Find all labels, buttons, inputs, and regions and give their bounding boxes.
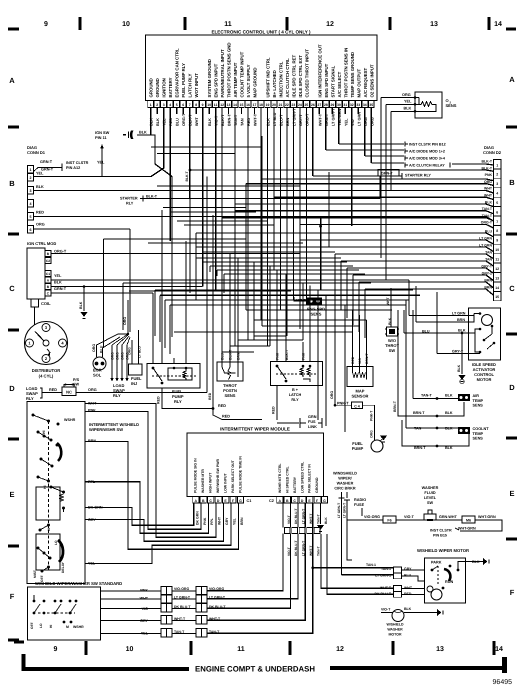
svg-text:WASHER: WASHER	[387, 628, 403, 632]
svg-text:27: 27	[317, 103, 321, 107]
svg-text:O2 SENS INPUT: O2 SENS INPUT	[369, 64, 374, 97]
wire air temp row	[413, 398, 458, 400]
inline connector row below module	[284, 528, 320, 534]
svg-text:FUEL PUMP RLY: FUEL PUMP RLY	[181, 63, 186, 98]
wire o2 org	[381, 97, 419, 99]
svg-text:MOTOR: MOTOR	[477, 377, 492, 382]
wire BLK row ign	[51, 286, 203, 288]
svg-text:PNK-T: PNK-T	[370, 410, 374, 421]
wire GRN-T row ign	[51, 292, 153, 294]
svg-text:TAN-1: TAN-1	[366, 563, 376, 567]
svg-text:ORG: ORG	[121, 352, 125, 360]
svg-text:BLK-T: BLK-T	[229, 349, 233, 360]
svg-text:B +: B +	[292, 388, 299, 392]
svg-text:3: 3	[496, 182, 498, 186]
svg-text:BLK: BLK	[445, 411, 453, 415]
svg-text:CIRC BRKR: CIRC BRKR	[334, 487, 356, 491]
wiper module left pin labels	[194, 456, 243, 493]
svg-text:ENG SPD INPUT: ENG SPD INPUT	[214, 63, 219, 97]
svg-text:BATTERY: BATTERY	[293, 476, 297, 493]
svg-text:RED: RED	[272, 406, 276, 414]
svg-text:13: 13	[227, 103, 231, 107]
svg-text:BLK: BLK	[445, 446, 453, 450]
wire motor rows	[402, 569, 425, 571]
svg-text:PARK: PARK	[431, 561, 442, 565]
svg-text:VIO: VIO	[142, 607, 148, 611]
svg-text:HI SPEED CTRL: HI SPEED CTRL	[285, 465, 289, 493]
svg-text:ORG: ORG	[36, 223, 45, 227]
svg-text:C2: C2	[46, 259, 50, 263]
svg-text:GROUND: GROUND	[149, 78, 154, 97]
svg-text:RUN: RUN	[445, 580, 453, 584]
svg-text:RLY: RLY	[113, 393, 121, 398]
svg-text:ORG: ORG	[88, 388, 97, 392]
svg-text:ORG-T: ORG-T	[182, 113, 186, 126]
svg-text:BLK: BLK	[404, 106, 412, 110]
svg-text:E: E	[509, 489, 514, 498]
svg-text:RLY: RLY	[291, 398, 299, 402]
svg-text:PULSE MODE SIG IN: PULSE MODE SIG IN	[194, 458, 198, 493]
svg-text:LT BLU: LT BLU	[138, 346, 142, 358]
svg-text:ENG SPD INPUT: ENG SPD INPUT	[324, 63, 329, 97]
svg-text:7: 7	[189, 103, 191, 107]
svg-text:29: 29	[330, 103, 334, 107]
svg-text:HI: HI	[47, 528, 51, 531]
wire brn-t row2	[398, 310, 464, 416]
wire c4 to fuel pump	[363, 405, 375, 440]
map sensor internals	[353, 367, 367, 373]
svg-text:RADIO: RADIO	[354, 498, 366, 502]
svg-text:BRN: BRN	[457, 318, 465, 322]
svg-text:3: 3	[163, 103, 165, 107]
svg-text:TEMP: TEMP	[473, 432, 484, 436]
svg-text:A/C REQUEST: A/C REQUEST	[363, 67, 368, 97]
fuel pump ground	[380, 439, 382, 442]
svg-text:CLOSED THROT INPUT: CLOSED THROT INPUT	[304, 49, 309, 98]
wire coolnt row	[406, 427, 458, 429]
svg-text:10: 10	[126, 646, 134, 653]
svg-text:WINDSHIELD: WINDSHIELD	[333, 472, 357, 476]
svg-text:30: 30	[337, 103, 341, 107]
wire motor blk ground	[458, 562, 483, 571]
svg-text:GRN-T: GRN-T	[54, 287, 67, 291]
svg-text:C 4: C 4	[354, 404, 360, 408]
svg-text:GRN-T: GRN-T	[40, 160, 53, 164]
svg-text:C1: C1	[247, 499, 252, 503]
svg-text:14: 14	[494, 21, 502, 28]
wire washer fluid row	[436, 519, 462, 521]
svg-text:ORG: ORG	[92, 344, 96, 352]
svg-text:DELAY: DELAY	[61, 561, 65, 573]
svg-text:VIO-ORG: VIO-ORG	[364, 515, 380, 519]
svg-text:23: 23	[292, 103, 296, 107]
svg-text:21: 21	[279, 103, 283, 107]
svg-text:SW: SW	[389, 348, 396, 353]
svg-text:MAP OUTPUT: MAP OUTPUT	[356, 69, 361, 98]
connector column bottom 1	[161, 587, 172, 638]
svg-text:WIPER/: WIPER/	[338, 477, 352, 481]
svg-text:4: 4	[496, 192, 498, 196]
svg-text:GRY: GRY	[225, 517, 229, 525]
svg-text:19: 19	[266, 103, 270, 107]
svg-text:PULSE MODE TIME IN: PULSE MODE TIME IN	[238, 456, 242, 493]
svg-text:RLY: RLY	[26, 396, 34, 401]
svg-text:BLK-T: BLK-T	[185, 170, 189, 181]
svg-text:A/C SELECT: A/C SELECT	[337, 71, 342, 97]
connector D2 pin boxes 1-15	[494, 160, 502, 301]
wire idle brn	[416, 314, 474, 323]
svg-text:E: E	[9, 490, 14, 499]
svg-text:WHT: WHT	[218, 516, 222, 525]
svg-text:BLK-T: BLK-T	[482, 160, 493, 164]
svg-text:WASHER MTR: WASHER MTR	[201, 469, 205, 493]
svg-text:WHT-GRN: WHT-GRN	[458, 527, 476, 531]
svg-text:AIR: AIR	[473, 394, 480, 398]
wire fuse row	[347, 519, 383, 521]
ground symbol left	[81, 312, 88, 317]
wire fuel pump rly feeds	[152, 358, 154, 364]
svg-text:LOW SPEED CTRL: LOW SPEED CTRL	[300, 461, 304, 493]
svg-text:CONN D2: CONN D2	[483, 150, 502, 155]
svg-text:17: 17	[253, 103, 257, 107]
wire wo throt top	[390, 288, 392, 327]
svg-text:RED: RED	[222, 415, 230, 419]
svg-text:ORG: ORG	[370, 430, 374, 438]
svg-text:B: B	[509, 178, 515, 187]
wiper module right pin boxes C2 A-G	[269, 497, 328, 504]
svg-text:12: 12	[336, 646, 344, 653]
svg-text:12: 12	[326, 21, 334, 28]
svg-text:10: 10	[495, 248, 499, 252]
svg-text:15: 15	[495, 295, 499, 299]
svg-text:WSHR MTR CTRL: WSHR MTR CTRL	[278, 463, 282, 493]
svg-text:INJECTION CTRL: INJECTION CTRL	[278, 61, 283, 97]
svg-text:WHT: WHT	[386, 296, 390, 305]
wire mesh	[137, 135, 172, 332]
svg-text:BLK: BLK	[79, 301, 83, 309]
ign sw battery feed symbol	[123, 132, 129, 139]
svg-text:WHT: WHT	[195, 117, 199, 126]
op-amp U1 electronic control unit box	[146, 35, 378, 101]
svg-text:A: A	[509, 75, 515, 84]
svg-text:SENS: SENS	[311, 312, 322, 317]
svg-text:START SIGNAL: START SIGNAL	[330, 65, 335, 97]
svg-text:BRN-T: BRN-T	[393, 400, 397, 412]
wire BLK row D1 pin3	[34, 190, 487, 192]
b+ latch internals	[277, 366, 286, 379]
svg-text:11: 11	[237, 646, 245, 653]
svg-text:22: 22	[285, 103, 289, 107]
svg-text:GROUND: GROUND	[155, 78, 160, 97]
svg-text:10: 10	[207, 103, 211, 107]
svg-text:ORG-T: ORG-T	[54, 250, 67, 254]
svg-text:LT GRN-1: LT GRN-1	[375, 574, 391, 578]
fuel pump rly internals	[153, 368, 162, 381]
svg-text:M6: M6	[466, 518, 471, 522]
svg-text:MOTOR: MOTOR	[389, 633, 402, 637]
idle speed motor internals	[482, 315, 493, 326]
svg-text:IDLE SPD CTRL EXT: IDLE SPD CTRL EXT	[298, 55, 303, 98]
module ground	[320, 503, 322, 524]
wire rly out red	[162, 388, 213, 409]
solenoid EGR SOL	[93, 357, 106, 370]
svg-text:SENS: SENS	[446, 103, 457, 108]
svg-text:W/SHIELD WIPER/WASHER SW STAND: W/SHIELD WIPER/WASHER SW STANDARD	[35, 581, 122, 586]
relay B+ LATCH RLY box	[271, 362, 323, 386]
wire YEL row D1 pin2	[34, 176, 152, 178]
svg-text:VIO-T: VIO-T	[404, 515, 415, 519]
svg-text:LT GRN: LT GRN	[452, 312, 466, 316]
svg-text:P/S: P/S	[73, 378, 80, 382]
svg-text:2: 2	[30, 176, 32, 180]
wire idle gry	[437, 353, 480, 355]
svg-text:A/C DIODE MOD 3+4: A/C DIODE MOD 3+4	[409, 157, 446, 161]
svg-text:GRN-WHT: GRN-WHT	[439, 515, 458, 519]
motor IDLE SPEED ACTIVATOR CONTROL MOTOR box	[469, 308, 501, 360]
svg-text:ORG: ORG	[402, 93, 411, 97]
O2 resistor	[419, 102, 435, 107]
svg-text:8: 8	[496, 229, 498, 233]
svg-text:34: 34	[363, 103, 367, 107]
svg-text:C2: C2	[269, 499, 274, 503]
switch INTERMITTENT W/SHIELD WIPER/WSHR SW box	[27, 402, 85, 584]
svg-text:9: 9	[44, 21, 48, 28]
svg-text:PNK: PNK	[302, 352, 306, 360]
svg-text:12: 12	[495, 267, 499, 271]
svg-text:BLK: BLK	[457, 364, 461, 372]
svg-text:OFF: OFF	[30, 622, 34, 629]
svg-text:ORG: ORG	[330, 391, 334, 399]
svg-text:UPSHIFT IND CTRL: UPSHIFT IND CTRL	[265, 57, 270, 97]
svg-text:YEL: YEL	[97, 161, 105, 165]
svg-text:GROUND: GROUND	[315, 477, 319, 493]
svg-text:BLK: BLK	[156, 118, 160, 126]
svg-text:DISTRIBUTOR: DISTRIBUTOR	[32, 368, 61, 373]
svg-text:PIN A12: PIN A12	[66, 166, 80, 170]
sensor MAP SENSOR box	[347, 367, 373, 387]
svg-text:PARK SELECT IN: PARK SELECT IN	[308, 464, 312, 493]
svg-text:SYSTEM GROUND: SYSTEM GROUND	[207, 59, 212, 97]
module INTERMITTENT WIPER MODULE box	[187, 433, 324, 497]
svg-text:INTERMITTENT WIPER MODULE: INTERMITTENT WIPER MODULE	[220, 427, 290, 432]
connector D1 pin boxes 1-6	[28, 166, 34, 234]
ECU pin function labels	[149, 42, 375, 97]
svg-text:14: 14	[495, 286, 499, 290]
svg-text:YEL: YEL	[36, 172, 44, 176]
svg-text:WASHER: WASHER	[337, 482, 354, 486]
svg-text:F: F	[10, 592, 15, 601]
svg-text:WHT-GRN: WHT-GRN	[478, 515, 496, 519]
wiper sw contacts mid	[47, 480, 50, 483]
svg-text:C1: C1	[46, 272, 50, 276]
svg-text:13: 13	[436, 646, 444, 653]
svg-text:14: 14	[495, 646, 503, 653]
svg-text:9: 9	[202, 103, 204, 107]
svg-text:PNK: PNK	[203, 517, 207, 525]
distributor towers 1-4	[26, 324, 67, 363]
wiper module left wire colours	[195, 511, 244, 525]
svg-text:11: 11	[495, 258, 499, 262]
svg-text:11: 11	[214, 103, 218, 107]
svg-text:MIST: MIST	[33, 570, 37, 578]
wire egr blu	[103, 337, 121, 357]
svg-text:B: B	[9, 179, 15, 188]
svg-text:FUSE: FUSE	[354, 503, 365, 507]
svg-text:1: 1	[30, 168, 32, 172]
svg-text:16: 16	[246, 103, 250, 107]
fuse F6 box	[383, 516, 396, 523]
D2 wire colour labels	[479, 160, 493, 290]
svg-text:LO: LO	[39, 623, 43, 628]
wire o2 blk	[391, 110, 421, 112]
svg-text:WASHER: WASHER	[422, 486, 439, 490]
load swap rly wires ORG	[110, 345, 129, 382]
svg-text:INST CLSTR: INST CLSTR	[66, 161, 89, 165]
svg-text:SENS: SENS	[473, 404, 484, 408]
svg-text:LATCH RLY: LATCH RLY	[188, 74, 193, 98]
svg-text:YEL: YEL	[404, 100, 412, 104]
svg-text:BLK: BLK	[139, 131, 147, 135]
svg-text:RED: RED	[49, 388, 57, 392]
svg-text:STARTER: STARTER	[120, 197, 138, 201]
svg-text:CONN D1: CONN D1	[27, 150, 46, 155]
svg-text:28: 28	[324, 103, 328, 107]
connector wiper motor column	[394, 567, 402, 597]
wire red up	[212, 358, 214, 402]
svg-text:W/SHIELD WIPER MOTOR: W/SHIELD WIPER MOTOR	[417, 548, 469, 553]
wire org feed	[127, 300, 129, 334]
svg-text:5 VOLT SUPPLY: 5 VOLT SUPPLY	[246, 64, 251, 97]
svg-text:5: 5	[496, 201, 498, 205]
svg-text:TAN-T: TAN-T	[317, 514, 321, 524]
svg-text:BLK-T: BLK-T	[146, 195, 158, 199]
svg-text:15: 15	[240, 103, 244, 107]
svg-text:C: C	[509, 284, 515, 293]
svg-text:D: D	[509, 383, 515, 392]
svg-text:IGN CTRL MOD: IGN CTRL MOD	[27, 241, 56, 246]
svg-text:W/SHIELD: W/SHIELD	[386, 623, 404, 627]
svg-text:WIP/WSHR SW PWR: WIP/WSHR SW PWR	[216, 459, 220, 493]
svg-text:C: C	[9, 284, 15, 293]
wire std rows	[101, 590, 162, 592]
svg-text:BRN-T: BRN-T	[413, 411, 425, 415]
svg-text:PARK SELECT OUT: PARK SELECT OUT	[231, 459, 235, 493]
svg-text:LT GRN-T: LT GRN-T	[337, 503, 341, 518]
wiper module right pin labels	[278, 461, 319, 493]
svg-text:A/C DIODE MOD 1+2: A/C DIODE MOD 1+2	[409, 150, 445, 154]
svg-text:RLY: RLY	[174, 399, 182, 404]
svg-text:18: 18	[259, 103, 263, 107]
title bar ENGINE COMPT & UNDERDASH	[24, 654, 506, 674]
svg-text:13: 13	[495, 276, 499, 280]
wire ORG row D1 pin6	[34, 228, 131, 230]
svg-text:IDLE SPD CTRL RET: IDLE SPD CTRL RET	[291, 55, 296, 98]
svg-text:GRY: GRY	[404, 567, 412, 571]
svg-text:DK GRN: DK GRN	[195, 511, 199, 525]
svg-text:G: G	[323, 499, 326, 503]
svg-text:RED: RED	[218, 404, 226, 408]
svg-text:PARK/NEUTRAL INPUT: PARK/NEUTRAL INPUT	[220, 49, 225, 97]
svg-text:THROT POSTN SENS GND: THROT POSTN SENS GND	[227, 42, 232, 97]
svg-text:EGR/VAPOR CAN CTRL: EGR/VAPOR CAN CTRL	[175, 48, 180, 97]
wire idle lt grn	[409, 315, 474, 317]
wire grn fus link	[277, 422, 299, 424]
svg-text:ORG: ORG	[111, 352, 115, 360]
svg-text:2: 2	[496, 173, 498, 177]
svg-text:COOLNT TEMP INPUT: COOLNT TEMP INPUT	[240, 51, 245, 97]
svg-text:YEL: YEL	[344, 118, 348, 126]
svg-text:13: 13	[430, 21, 438, 28]
svg-text:SOL: SOL	[93, 373, 102, 378]
svg-text:NC: NC	[66, 390, 72, 395]
wire red to NC	[44, 392, 62, 394]
wire RED row D1 pin5	[34, 216, 487, 218]
wire lt grn-t pair	[341, 498, 343, 575]
svg-text:BLK: BLK	[54, 281, 62, 285]
wiper module right wire colours	[287, 508, 328, 524]
wire fan to load swap	[112, 334, 128, 345]
svg-text:BLU: BLU	[176, 118, 180, 126]
svg-text:TAN-T: TAN-T	[421, 394, 433, 398]
svg-text:14: 14	[233, 103, 237, 107]
throt postn internals	[222, 362, 238, 367]
svg-text:PUMP: PUMP	[352, 446, 364, 451]
ECU pin wire colour labels	[150, 108, 375, 126]
wire idle blk	[404, 332, 475, 334]
svg-text:32: 32	[350, 103, 354, 107]
std switch internals	[38, 612, 75, 614]
svg-text:MAP GROUND: MAP GROUND	[253, 67, 258, 97]
IGN CTRL MOD pin boxes	[45, 251, 51, 297]
svg-text:BLK: BLK	[472, 560, 480, 564]
svg-text:YEL: YEL	[233, 517, 237, 525]
ground symbol idle	[459, 375, 466, 380]
svg-text:1: 1	[150, 103, 152, 107]
svg-text:IGN INTERFERENCE OUT: IGN INTERFERENCE OUT	[317, 44, 322, 97]
svg-text:(4 CYL): (4 CYL)	[39, 374, 54, 379]
svg-text:COIL: COIL	[41, 301, 51, 306]
wiper sw contacts lower	[36, 487, 60, 520]
svg-text:IGNITION: IGNITION	[162, 78, 167, 97]
svg-text:24: 24	[298, 103, 302, 107]
svg-text:F6: F6	[387, 518, 391, 522]
svg-text:THROT POSTN SENS IN: THROT POSTN SENS IN	[343, 48, 348, 98]
svg-text:7: 7	[496, 220, 498, 224]
injector FUEL INJ box	[129, 364, 143, 375]
svg-text:HI: HI	[49, 625, 53, 628]
svg-text:6: 6	[30, 228, 32, 232]
svg-text:STARTER RLY: STARTER RLY	[405, 174, 431, 178]
svg-text:RED: RED	[36, 211, 44, 215]
P/S SW NC box	[62, 387, 76, 396]
svg-text:M: M	[66, 625, 69, 629]
svg-text:WHT: WHT	[484, 187, 493, 191]
svg-text:COOLNT: COOLNT	[473, 427, 490, 431]
wire blk ground drop	[461, 333, 463, 374]
svg-text:RED: RED	[157, 396, 161, 404]
svg-text:RED: RED	[208, 392, 212, 400]
svg-text:HIGH INPUT: HIGH INPUT	[209, 472, 213, 493]
svg-text:SENSOR: SENSOR	[352, 394, 369, 399]
svg-text:25: 25	[305, 103, 309, 107]
motor FUEL PUMP	[371, 440, 383, 452]
svg-text:A/C CLUTCH RELAY: A/C CLUTCH RELAY	[409, 164, 445, 168]
svg-text:TEMP: TEMP	[473, 399, 484, 403]
connector column bottom 2	[196, 587, 207, 638]
svg-text:FUS: FUS	[308, 420, 316, 424]
svg-text:BLK: BLK	[208, 118, 212, 126]
wiper module left pin boxes A-G C1	[193, 497, 252, 504]
